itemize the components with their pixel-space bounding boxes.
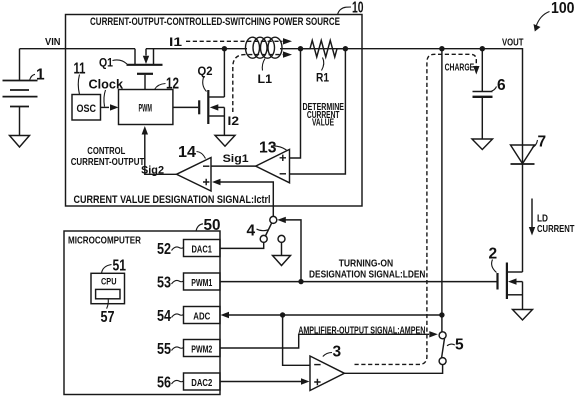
svg-text:51: 51 — [113, 258, 127, 275]
svg-text:VIN: VIN — [45, 37, 61, 48]
svg-text:CPU: CPU — [101, 276, 117, 287]
svg-text:Q1: Q1 — [99, 55, 113, 69]
svg-text:11: 11 — [74, 61, 86, 78]
svg-text:CURRENT-OUTPUT-CONTROLLED-SWIT: CURRENT-OUTPUT-CONTROLLED-SWITCHING POWE… — [90, 16, 340, 28]
svg-text:VALUE: VALUE — [312, 118, 334, 129]
svg-text:56: 56 — [157, 375, 171, 392]
svg-text:PWM: PWM — [139, 103, 153, 115]
svg-text:4: 4 — [247, 222, 256, 239]
svg-text:CHARGE: CHARGE — [445, 62, 475, 73]
svg-text:CURRENT VALUE DESIGNATION SIGN: CURRENT VALUE DESIGNATION SIGNAL:Ictrl — [74, 194, 271, 206]
svg-text:12: 12 — [166, 76, 179, 93]
svg-text:OSC: OSC — [77, 103, 97, 115]
svg-text:54: 54 — [157, 308, 171, 325]
svg-text:6: 6 — [497, 77, 506, 94]
svg-text:7: 7 — [538, 133, 547, 150]
svg-text:ADC: ADC — [193, 310, 210, 322]
svg-text:I2: I2 — [228, 114, 240, 128]
svg-text:Clock: Clock — [89, 77, 124, 91]
svg-text:52: 52 — [157, 241, 171, 258]
svg-text:50: 50 — [204, 217, 221, 234]
svg-text:10: 10 — [352, 0, 364, 17]
svg-text:Sig2: Sig2 — [141, 165, 164, 177]
svg-text:53: 53 — [157, 275, 171, 292]
svg-text:CONTROL: CONTROL — [87, 146, 125, 157]
svg-text:5: 5 — [455, 337, 464, 354]
svg-text:55: 55 — [157, 341, 171, 358]
svg-text:2: 2 — [489, 245, 498, 262]
svg-text:CURRENT-OUTPUT: CURRENT-OUTPUT — [71, 157, 145, 168]
svg-text:TURNING-ON: TURNING-ON — [339, 258, 394, 269]
svg-text:1: 1 — [36, 66, 45, 83]
svg-text:57: 57 — [101, 309, 115, 326]
svg-text:DAC2: DAC2 — [191, 377, 212, 389]
svg-text:LD: LD — [537, 213, 548, 224]
svg-text:CURRENT: CURRENT — [537, 224, 575, 235]
svg-text:DAC1: DAC1 — [192, 243, 213, 255]
svg-text:L1: L1 — [258, 72, 273, 86]
svg-text:AMPLIFIER-OUTPUT SIGNAL:AMPEN: AMPLIFIER-OUTPUT SIGNAL:AMPEN — [298, 325, 425, 336]
svg-text:PWM1: PWM1 — [191, 277, 212, 289]
svg-text:Q2: Q2 — [198, 64, 213, 78]
svg-text:3: 3 — [333, 344, 342, 361]
svg-text:R1: R1 — [316, 71, 329, 85]
svg-text:14: 14 — [178, 144, 196, 161]
svg-text:I1: I1 — [169, 35, 182, 49]
svg-text:100: 100 — [551, 0, 575, 17]
svg-text:VOUT: VOUT — [502, 37, 524, 48]
svg-text:Sig1: Sig1 — [223, 153, 249, 165]
svg-text:MICROCOMPUTER: MICROCOMPUTER — [68, 234, 141, 246]
svg-text:DESIGNATION SIGNAL:LDEN: DESIGNATION SIGNAL:LDEN — [309, 269, 425, 280]
svg-text:PWM2: PWM2 — [191, 343, 212, 355]
svg-text:13: 13 — [259, 140, 277, 157]
